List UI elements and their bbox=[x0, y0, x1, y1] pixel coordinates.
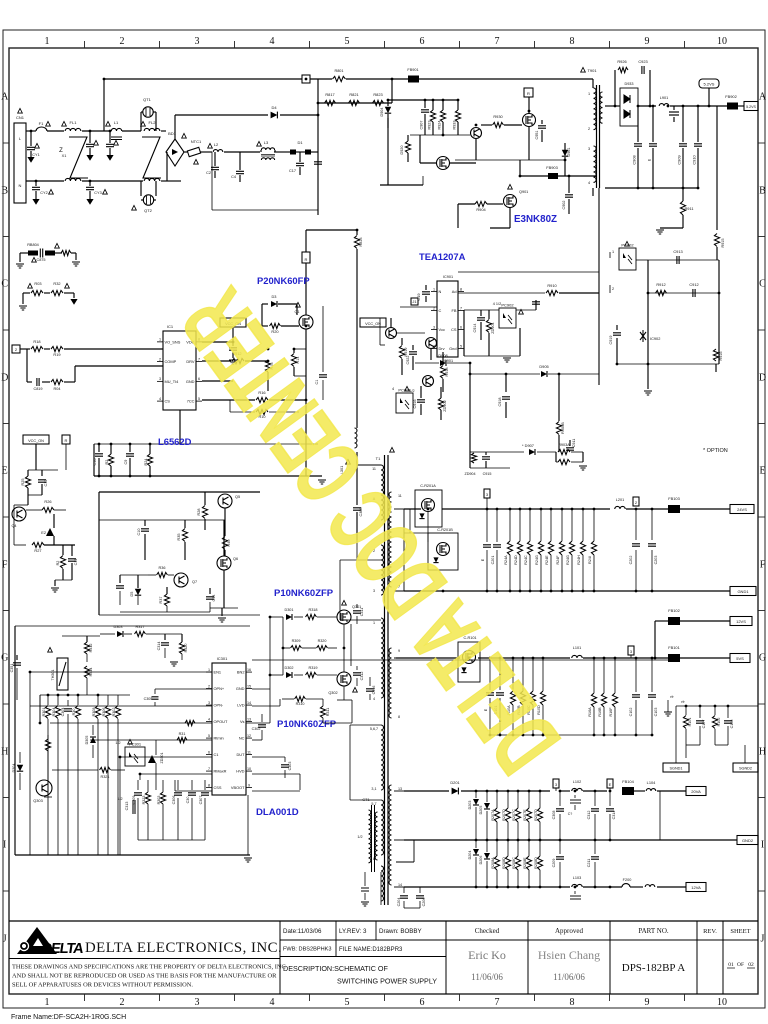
svg-text:Q7: Q7 bbox=[192, 580, 197, 584]
svg-text:5.2VS: 5.2VS bbox=[704, 82, 715, 87]
svg-text:R24: R24 bbox=[144, 459, 148, 466]
svg-text:C14: C14 bbox=[212, 595, 216, 602]
svg-text:P20NK60FP: P20NK60FP bbox=[257, 275, 310, 286]
svg-text:R318: R318 bbox=[308, 608, 317, 612]
svg-text:B: B bbox=[759, 186, 766, 197]
svg-text:RMaxR: RMaxR bbox=[214, 768, 227, 773]
svg-text:DELTA ELECTRONICS, INC.: DELTA ELECTRONICS, INC. bbox=[85, 940, 282, 956]
svg-text:I: I bbox=[761, 840, 764, 851]
svg-text:SGND1: SGND1 bbox=[669, 767, 682, 771]
svg-text:DLA001D: DLA001D bbox=[256, 807, 299, 818]
svg-text:R: R bbox=[305, 257, 308, 262]
svg-text:4: 4 bbox=[392, 387, 394, 391]
svg-text:CY1: CY1 bbox=[32, 153, 39, 157]
svg-text:R30: R30 bbox=[72, 709, 76, 716]
svg-text:5: 5 bbox=[198, 397, 200, 401]
svg-text:3: 3 bbox=[159, 377, 161, 381]
svg-text:8: 8 bbox=[398, 715, 400, 719]
svg-text:C303: C303 bbox=[288, 762, 292, 771]
svg-text:VBOOT: VBOOT bbox=[231, 785, 245, 790]
svg-text:L201: L201 bbox=[616, 498, 624, 502]
svg-text:10: 10 bbox=[717, 36, 727, 47]
svg-text:FB: FB bbox=[452, 308, 457, 313]
svg-text:IC902: IC902 bbox=[650, 336, 660, 341]
svg-text:R24A: R24A bbox=[504, 555, 508, 565]
svg-text:1/2: 1/2 bbox=[409, 389, 414, 393]
svg-text:R319: R319 bbox=[308, 666, 317, 670]
svg-text:R: R bbox=[527, 91, 530, 96]
svg-text:R208A: R208A bbox=[491, 857, 495, 869]
svg-text:C2: C2 bbox=[206, 171, 211, 175]
svg-text:C10: C10 bbox=[137, 529, 141, 536]
svg-text:11/06/06: 11/06/06 bbox=[553, 972, 585, 982]
svg-text:R26: R26 bbox=[44, 499, 51, 504]
svg-text:5: 5 bbox=[345, 36, 350, 47]
svg-text:C907: C907 bbox=[420, 120, 424, 129]
svg-text:7CC: 7CC bbox=[187, 399, 195, 404]
svg-text:R900B: R900B bbox=[561, 422, 565, 434]
svg-text:D302: D302 bbox=[284, 666, 293, 670]
svg-text:R302: R302 bbox=[112, 708, 116, 717]
svg-text:R32: R32 bbox=[53, 281, 60, 286]
svg-text:R207E: R207E bbox=[523, 809, 527, 821]
svg-text:D908: D908 bbox=[438, 353, 447, 358]
svg-text:R2: R2 bbox=[56, 561, 60, 566]
svg-text:QT2: QT2 bbox=[144, 208, 153, 213]
svg-text:FL2: FL2 bbox=[149, 120, 157, 125]
svg-text:R40: R40 bbox=[227, 540, 231, 547]
svg-text:R35: R35 bbox=[177, 534, 181, 541]
svg-text:C203: C203 bbox=[654, 556, 658, 565]
svg-text:C910: C910 bbox=[692, 155, 697, 165]
svg-text:Hsien Chang: Hsien Chang bbox=[538, 948, 600, 962]
svg-text:R24C: R24C bbox=[524, 555, 528, 565]
svg-text:Rtmin: Rtmin bbox=[214, 735, 224, 740]
svg-text:C202: C202 bbox=[629, 556, 633, 565]
svg-text:FL1: FL1 bbox=[70, 120, 78, 125]
svg-text:6: 6 bbox=[420, 36, 425, 47]
svg-text:VCC_ON: VCC_ON bbox=[28, 439, 44, 443]
svg-text:C17: C17 bbox=[289, 169, 296, 173]
svg-text:A: A bbox=[759, 92, 767, 103]
svg-text:OPN-: OPN- bbox=[214, 702, 224, 707]
svg-text:C: C bbox=[439, 308, 442, 313]
svg-text:C209: C209 bbox=[552, 859, 556, 868]
svg-text:FB104: FB104 bbox=[622, 779, 634, 784]
svg-text:F200: F200 bbox=[623, 878, 632, 882]
svg-text:THESE DRAWINGS AND SPECIFICATI: THESE DRAWINGS AND SPECIFICATIONS ARE TH… bbox=[12, 964, 286, 971]
svg-text:E: E bbox=[609, 782, 612, 787]
svg-text:B: B bbox=[1, 186, 8, 197]
svg-text:R309: R309 bbox=[292, 639, 301, 643]
svg-text:C312: C312 bbox=[587, 811, 591, 820]
svg-text:D305: D305 bbox=[85, 736, 89, 745]
svg-text:C4: C4 bbox=[231, 175, 236, 179]
svg-text:C204: C204 bbox=[397, 898, 401, 907]
svg-text:OPN+: OPN+ bbox=[214, 686, 225, 691]
svg-text:PART NO.: PART NO. bbox=[638, 927, 669, 935]
svg-text:C915: C915 bbox=[483, 472, 492, 476]
svg-text:R930: R930 bbox=[493, 114, 503, 119]
svg-text:C922: C922 bbox=[406, 355, 410, 364]
svg-text:CT1: CT1 bbox=[362, 798, 369, 802]
svg-text:8: 8 bbox=[570, 36, 575, 47]
svg-text:14: 14 bbox=[398, 883, 402, 887]
svg-text:2: 2 bbox=[208, 684, 210, 688]
svg-text:C914: C914 bbox=[473, 323, 477, 332]
svg-text:R207D: R207D bbox=[534, 809, 538, 821]
svg-text:MU_TI4: MU_TI4 bbox=[165, 379, 180, 384]
svg-text:R16F: R16F bbox=[609, 707, 613, 717]
svg-text:FB103: FB103 bbox=[668, 496, 679, 501]
svg-text:C: C bbox=[759, 279, 766, 290]
svg-text:1: 1 bbox=[45, 36, 50, 47]
svg-text:N: N bbox=[19, 183, 22, 188]
svg-text:5: 5 bbox=[208, 734, 210, 738]
svg-text:R16A: R16A bbox=[588, 707, 592, 717]
svg-text:H: H bbox=[1, 747, 8, 758]
svg-text:C819: C819 bbox=[33, 387, 42, 391]
svg-text:P10NK60ZFP: P10NK60ZFP bbox=[277, 719, 337, 730]
svg-text:D961: D961 bbox=[567, 147, 571, 156]
svg-text:CS: CS bbox=[451, 327, 457, 332]
svg-text:A: A bbox=[1, 92, 9, 103]
svg-text:C?: C? bbox=[568, 812, 573, 816]
svg-text:Approved: Approved bbox=[555, 927, 583, 935]
svg-text:FWB: DBS2BPHK3: FWB: DBS2BPHK3 bbox=[283, 947, 332, 953]
svg-text:P10NK60ZFP: P10NK60ZFP bbox=[274, 588, 334, 599]
svg-text:15: 15 bbox=[247, 684, 251, 688]
svg-text:C918: C918 bbox=[498, 397, 502, 406]
svg-text:E: E bbox=[759, 466, 765, 477]
svg-text:L6562D: L6562D bbox=[158, 436, 192, 447]
svg-text:R301: R301 bbox=[42, 708, 46, 717]
svg-text:C875: C875 bbox=[36, 258, 45, 262]
svg-text:D201: D201 bbox=[450, 780, 459, 785]
svg-text:R312: R312 bbox=[89, 644, 93, 653]
svg-text:R207A: R207A bbox=[491, 809, 495, 821]
svg-text:RB804: RB804 bbox=[27, 243, 39, 247]
svg-text:1: 1 bbox=[159, 338, 161, 342]
svg-text:R24D: R24D bbox=[514, 555, 518, 565]
svg-text:D: D bbox=[1, 373, 8, 384]
svg-text:2: 2 bbox=[120, 997, 125, 1008]
svg-text:7: 7 bbox=[495, 36, 500, 47]
svg-text:E3NK80Z: E3NK80Z bbox=[514, 214, 557, 225]
svg-text:Drv: Drv bbox=[439, 346, 445, 351]
svg-text:11/06/06: 11/06/06 bbox=[471, 972, 503, 982]
svg-text:OF: OF bbox=[737, 962, 744, 968]
svg-text:CY2: CY2 bbox=[40, 191, 47, 195]
svg-text:IC901: IC901 bbox=[443, 275, 453, 279]
svg-text:10: 10 bbox=[247, 767, 251, 771]
svg-text:R18: R18 bbox=[33, 339, 40, 344]
svg-text:R910: R910 bbox=[547, 283, 557, 288]
svg-text:GND: GND bbox=[186, 379, 195, 384]
svg-text:FB903: FB903 bbox=[546, 165, 557, 170]
svg-text:C351: C351 bbox=[10, 664, 14, 673]
svg-text:D4: D4 bbox=[271, 105, 277, 110]
svg-text:J: J bbox=[761, 934, 765, 945]
svg-text:C102: C102 bbox=[629, 708, 633, 717]
svg-text:C307: C307 bbox=[199, 796, 203, 805]
svg-text:T901: T901 bbox=[587, 68, 597, 73]
svg-text:9: 9 bbox=[645, 36, 650, 47]
svg-text:12VS: 12VS bbox=[736, 619, 746, 624]
svg-text:C919: C919 bbox=[609, 335, 613, 344]
svg-text:8: 8 bbox=[208, 783, 210, 787]
svg-text:R924: R924 bbox=[438, 120, 442, 129]
svg-text:C908: C908 bbox=[632, 155, 637, 164]
svg-text:D1: D1 bbox=[297, 140, 303, 145]
svg-text:R918: R918 bbox=[445, 367, 449, 376]
svg-text:J: J bbox=[3, 934, 7, 945]
svg-text:R320: R320 bbox=[184, 644, 188, 653]
svg-text:R101: R101 bbox=[688, 718, 692, 727]
svg-text:3: 3 bbox=[208, 701, 210, 705]
svg-text:ZD901: ZD901 bbox=[491, 322, 495, 333]
svg-text:Drawn: BOBBY: Drawn: BOBBY bbox=[379, 928, 422, 935]
svg-text:L104: L104 bbox=[647, 780, 656, 785]
svg-text:D206: D206 bbox=[479, 856, 483, 865]
svg-text:R207D: R207D bbox=[502, 809, 506, 821]
svg-text:R24F: R24F bbox=[556, 555, 560, 565]
svg-text:D905: D905 bbox=[539, 364, 548, 369]
svg-text:C911: C911 bbox=[572, 439, 576, 448]
svg-text:20VA: 20VA bbox=[691, 789, 701, 794]
svg-text:C304: C304 bbox=[61, 708, 65, 717]
svg-text:C912: C912 bbox=[689, 282, 698, 287]
svg-text:CSS: CSS bbox=[214, 785, 222, 790]
svg-text:4: 4 bbox=[208, 717, 210, 721]
svg-text:CS: CS bbox=[165, 399, 171, 404]
svg-text:C-R201A: C-R201A bbox=[420, 484, 436, 488]
svg-text:C30: C30 bbox=[186, 797, 190, 804]
svg-text:AND SHALL NOT BE REPRODUCED OR: AND SHALL NOT BE REPRODUCED OR USED AS T… bbox=[12, 973, 277, 980]
svg-text:1/2: 1/2 bbox=[117, 797, 122, 801]
svg-text:3: 3 bbox=[588, 147, 590, 151]
svg-text:8: 8 bbox=[460, 287, 462, 291]
svg-text:FB102: FB102 bbox=[668, 608, 679, 613]
svg-text:5.2VS: 5.2VS bbox=[746, 105, 756, 109]
svg-text:R304: R304 bbox=[52, 708, 56, 717]
svg-text:Checked: Checked bbox=[475, 927, 500, 935]
svg-text:D5: D5 bbox=[130, 592, 134, 597]
svg-text:Gnd: Gnd bbox=[449, 346, 456, 351]
svg-text:C302: C302 bbox=[252, 727, 261, 731]
svg-text:C108: C108 bbox=[730, 720, 734, 729]
svg-text:C923: C923 bbox=[638, 59, 647, 64]
svg-text:R16B: R16B bbox=[598, 707, 602, 717]
svg-text:R24E: R24E bbox=[545, 555, 549, 565]
svg-text:3: 3 bbox=[433, 325, 435, 329]
svg-text:R317: R317 bbox=[135, 625, 144, 629]
svg-text:NTC1: NTC1 bbox=[191, 139, 202, 144]
svg-text:DPS-182BP A: DPS-182BP A bbox=[622, 962, 686, 974]
svg-text:Q901: Q901 bbox=[519, 190, 528, 194]
svg-text:D301: D301 bbox=[284, 608, 293, 612]
svg-text:4: 4 bbox=[588, 181, 590, 185]
svg-text:6: 6 bbox=[420, 997, 425, 1008]
svg-text:Eric Ko: Eric Ko bbox=[468, 948, 506, 962]
svg-text:D3: D3 bbox=[272, 294, 277, 299]
svg-text:COMP: COMP bbox=[165, 359, 177, 364]
svg-text:Vcc: Vcc bbox=[439, 327, 446, 332]
svg-text:3: 3 bbox=[195, 997, 200, 1008]
svg-text:C316: C316 bbox=[372, 686, 376, 695]
svg-text:R208D: R208D bbox=[534, 857, 538, 869]
svg-text:R31: R31 bbox=[179, 732, 186, 736]
svg-text:H: H bbox=[759, 747, 766, 758]
svg-text:12: 12 bbox=[247, 734, 251, 738]
svg-text:PC902: PC902 bbox=[501, 303, 514, 308]
svg-text:5,6,7: 5,6,7 bbox=[370, 727, 378, 731]
svg-text:01: 01 bbox=[728, 962, 734, 968]
svg-text:R24H: R24H bbox=[577, 555, 581, 565]
svg-text:C306: C306 bbox=[172, 796, 176, 805]
svg-text:G: G bbox=[759, 653, 766, 664]
svg-text:R308: R308 bbox=[92, 708, 96, 717]
svg-text:C: C bbox=[1, 279, 8, 290]
svg-text:14: 14 bbox=[247, 701, 251, 705]
svg-text:N: N bbox=[439, 289, 442, 294]
svg-text:4: 4 bbox=[270, 997, 275, 1008]
svg-text:3,1: 3,1 bbox=[371, 787, 376, 791]
svg-text:TEA1207A: TEA1207A bbox=[419, 251, 466, 262]
svg-text:OPOUT: OPOUT bbox=[214, 719, 228, 724]
svg-text:SELL OF APPARATUSES OR DEVICES: SELL OF APPARATUSES OR DEVICES WITHOUT P… bbox=[12, 982, 193, 989]
svg-text:FB101: FB101 bbox=[668, 645, 679, 650]
svg-text:R27: R27 bbox=[34, 548, 41, 553]
svg-text:R303: R303 bbox=[157, 796, 161, 805]
svg-text:D920: D920 bbox=[400, 145, 404, 154]
svg-text:7: 7 bbox=[495, 997, 500, 1008]
svg-text:Q1: Q1 bbox=[294, 310, 299, 314]
svg-text:E: E bbox=[647, 158, 652, 161]
svg-text:SWITCHING POWER SUPPLY: SWITCHING POWER SUPPLY bbox=[337, 977, 437, 986]
svg-text:R904: R904 bbox=[476, 207, 486, 212]
svg-text:R915: R915 bbox=[721, 238, 725, 247]
svg-text:GND1: GND1 bbox=[737, 589, 749, 594]
svg-text:L102: L102 bbox=[573, 780, 581, 784]
svg-text:FB901: FB901 bbox=[407, 68, 418, 72]
svg-text:R933: R933 bbox=[453, 120, 457, 129]
svg-text:13: 13 bbox=[398, 787, 402, 791]
svg-text:QT1: QT1 bbox=[143, 97, 152, 102]
svg-text:TH301: TH301 bbox=[51, 669, 55, 680]
svg-text:7: 7 bbox=[208, 767, 210, 771]
svg-text:E: E bbox=[2, 466, 8, 477]
svg-text:C-R201B: C-R201B bbox=[437, 528, 453, 532]
svg-text:13: 13 bbox=[247, 717, 251, 721]
svg-text:R03: R03 bbox=[34, 281, 41, 286]
svg-text:D: D bbox=[759, 373, 766, 384]
svg-text:C308: C308 bbox=[552, 811, 556, 820]
svg-text:02: 02 bbox=[748, 962, 754, 968]
svg-text:6: 6 bbox=[208, 750, 210, 754]
svg-text:EN1: EN1 bbox=[214, 669, 222, 674]
svg-text:4: 4 bbox=[159, 397, 161, 401]
svg-text:1: 1 bbox=[433, 287, 435, 291]
svg-text:C211: C211 bbox=[587, 859, 591, 868]
svg-text:R912: R912 bbox=[656, 282, 665, 287]
svg-text:SHEET: SHEET bbox=[730, 928, 750, 935]
svg-text:C312: C312 bbox=[360, 672, 364, 681]
svg-text:GND: GND bbox=[236, 686, 245, 691]
svg-text:C103: C103 bbox=[654, 708, 658, 717]
svg-text:4: 4 bbox=[373, 697, 375, 701]
svg-text:1/2: 1/2 bbox=[357, 835, 362, 839]
svg-text:R24I: R24I bbox=[588, 556, 592, 564]
svg-text:R208E: R208E bbox=[523, 857, 527, 869]
svg-text:C11: C11 bbox=[74, 559, 78, 566]
svg-text:C1: C1 bbox=[214, 752, 219, 757]
svg-text:2: 2 bbox=[612, 287, 614, 291]
svg-text:2: 2 bbox=[159, 357, 161, 361]
svg-text:3: 3 bbox=[195, 36, 200, 47]
svg-text:D205: D205 bbox=[479, 806, 483, 815]
svg-text:7: 7 bbox=[460, 306, 462, 310]
svg-text:F: F bbox=[760, 560, 766, 571]
svg-text:L101: L101 bbox=[573, 646, 581, 650]
svg-text:I: I bbox=[3, 840, 6, 851]
svg-text:LY.REV: 3: LY.REV: 3 bbox=[339, 928, 367, 935]
svg-text:L2: L2 bbox=[214, 142, 219, 147]
svg-text:16: 16 bbox=[247, 668, 251, 672]
svg-text:SGND2: SGND2 bbox=[739, 767, 752, 771]
svg-text:11: 11 bbox=[247, 750, 251, 754]
svg-text:R28: R28 bbox=[197, 509, 201, 516]
svg-text:R916: R916 bbox=[719, 351, 723, 360]
svg-text:ZD902: ZD902 bbox=[443, 400, 447, 411]
svg-text:R208C: R208C bbox=[512, 857, 516, 869]
svg-text:2: 2 bbox=[120, 36, 125, 47]
svg-text:1: 1 bbox=[45, 997, 50, 1008]
svg-text:R801: R801 bbox=[334, 69, 343, 73]
svg-text:L3: L3 bbox=[264, 140, 269, 145]
svg-text:5VS: 5VS bbox=[736, 656, 744, 661]
svg-text:9: 9 bbox=[248, 783, 250, 787]
svg-text:5: 5 bbox=[460, 344, 462, 348]
svg-text:12VA: 12VA bbox=[691, 885, 701, 890]
svg-text:R310: R310 bbox=[296, 702, 305, 706]
svg-text:R37: R37 bbox=[159, 597, 163, 604]
svg-text:REV.: REV. bbox=[703, 928, 717, 935]
svg-text:R: R bbox=[65, 438, 68, 443]
svg-text:F: F bbox=[2, 560, 8, 571]
svg-text:10: 10 bbox=[717, 997, 727, 1008]
svg-text:4: 4 bbox=[270, 36, 275, 47]
svg-text:* OPTION: * OPTION bbox=[703, 448, 728, 454]
svg-text:C305: C305 bbox=[144, 697, 153, 701]
svg-text:D203: D203 bbox=[468, 801, 472, 810]
svg-text:DUT: DUT bbox=[237, 752, 246, 757]
svg-text:2: 2 bbox=[588, 127, 590, 131]
svg-text:R320: R320 bbox=[318, 639, 327, 643]
svg-text:VCC_ON: VCC_ON bbox=[365, 322, 381, 326]
svg-text:NC: NC bbox=[239, 735, 245, 740]
svg-text:CY3: CY3 bbox=[94, 191, 101, 195]
svg-text:9: 9 bbox=[645, 997, 650, 1008]
svg-text:FILE NAME:D182BPR3: FILE NAME:D182BPR3 bbox=[339, 947, 403, 953]
svg-text:R207C: R207C bbox=[512, 809, 516, 821]
svg-text:R102: R102 bbox=[717, 718, 721, 727]
svg-text:D933: D933 bbox=[624, 82, 633, 86]
svg-text:1: 1 bbox=[612, 250, 614, 254]
svg-text:R24G: R24G bbox=[566, 555, 570, 565]
svg-text:6: 6 bbox=[460, 325, 462, 329]
svg-text:R923: R923 bbox=[428, 120, 432, 129]
